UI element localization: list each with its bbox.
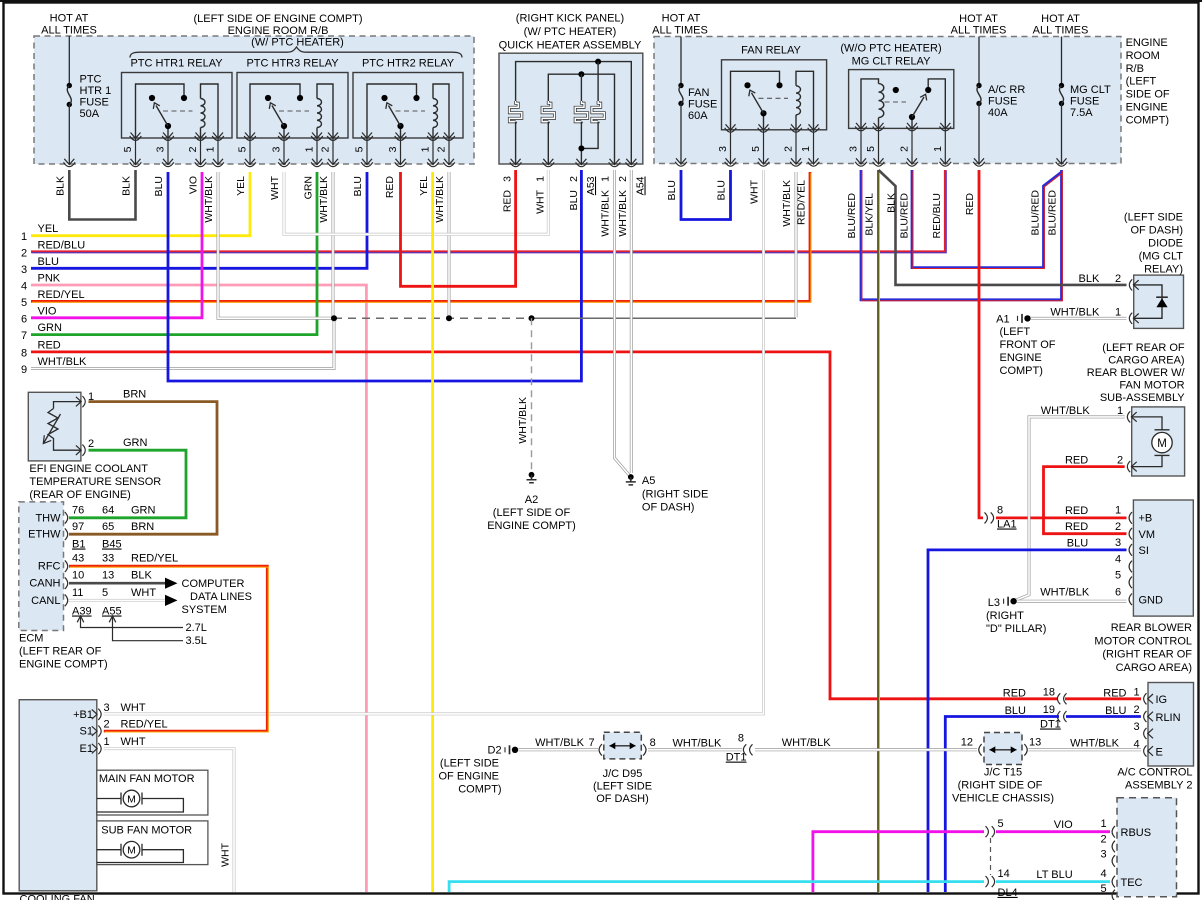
svg-text:(RIGHT: (RIGHT: [986, 610, 1024, 622]
svg-text:(LEFT: (LEFT: [1000, 326, 1031, 338]
svg-text:ALL TIMES: ALL TIMES: [652, 24, 708, 36]
svg-text:(LEFT SIDE: (LEFT SIDE: [440, 758, 499, 770]
wire 9 WHT/BLK net branch: [31, 318, 334, 368]
svg-text:65: 65: [102, 521, 114, 533]
svg-text:ENGINE COMPT): ENGINE COMPT): [487, 520, 576, 532]
svg-text:RED: RED: [1103, 688, 1126, 700]
svg-text:SUB-ASSEMBLY: SUB-ASSEMBLY: [1100, 392, 1185, 404]
relay U4 pin stubs and numbers: [730, 130, 732, 164]
svg-text:(W/ PTC HEATER): (W/ PTC HEATER): [251, 37, 344, 49]
svg-text:19: 19: [1043, 704, 1055, 716]
svg-text:BRN: BRN: [131, 521, 154, 533]
svg-text:2: 2: [320, 146, 332, 152]
svg-text:1: 1: [1100, 818, 1106, 830]
svg-text:PTC HTR2 RELAY: PTC HTR2 RELAY: [362, 58, 455, 70]
wire A53 WHT/BLK to ground A5: [615, 170, 630, 476]
wire WHT/BLK fan relay pin 2 drop: [795, 172, 798, 318]
svg-text:(LEFT SIDE: (LEFT SIDE: [593, 780, 652, 792]
svg-text:EFI ENGINE COOLANT: EFI ENGINE COOLANT: [29, 463, 148, 475]
svg-text:A53: A53: [585, 176, 597, 195]
svg-text:5: 5: [102, 587, 108, 599]
svg-text:2.7L: 2.7L: [186, 622, 207, 634]
wire GRN sensor pin 2 to ECM THW: [69, 450, 186, 518]
svg-text:ECM: ECM: [19, 633, 43, 645]
wire BLU RLIN to DT1 and off page: [1066, 715, 1141, 718]
relay U2 pin stubs and numbers: [249, 138, 251, 164]
svg-text:ENGINE: ENGINE: [1126, 37, 1168, 49]
svg-text:CANL: CANL: [31, 595, 60, 607]
svg-text:BLU/RED: BLU/RED: [899, 193, 911, 239]
svg-text:8: 8: [997, 505, 1003, 517]
svg-text:3: 3: [1115, 537, 1121, 549]
svg-text:76: 76: [72, 505, 84, 517]
junction node on bus 2: [578, 71, 584, 77]
svg-text:WHT/BLK: WHT/BLK: [38, 356, 88, 368]
relay U5 pin stubs and numbers: [860, 128, 862, 163]
splice D2: [504, 747, 506, 752]
svg-text:FUSE: FUSE: [1070, 96, 1099, 108]
heater internal bus 2: [548, 74, 614, 164]
wire YEL relay U3 pin 1 drop off page: [431, 172, 434, 892]
svg-text:WHT/BLK: WHT/BLK: [1041, 405, 1091, 417]
wire WHT/BLK solid run to fan relay pin 2: [532, 317, 797, 319]
svg-text:2: 2: [1133, 704, 1139, 716]
svg-text:A/C RR: A/C RR: [988, 84, 1025, 96]
svg-text:ENGINE ROOM R/B: ENGINE ROOM R/B: [228, 25, 329, 37]
svg-text:6: 6: [1115, 586, 1121, 598]
svg-text:ENGINE COMPT): ENGINE COMPT): [19, 659, 108, 671]
svg-text:5: 5: [237, 146, 249, 152]
diode internal circuit: [1134, 285, 1162, 318]
svg-text:+B1: +B1: [73, 709, 93, 721]
svg-text:33: 33: [102, 553, 114, 565]
svg-text:RED/YEL: RED/YEL: [131, 553, 178, 565]
wire WHT/BLK splice A1 to diode pin 1: [1031, 317, 1127, 320]
svg-text:(RIGHT REAR OF: (RIGHT REAR OF: [1102, 649, 1192, 661]
svg-text:1: 1: [535, 176, 547, 182]
svg-text:1: 1: [205, 146, 217, 152]
wire WHT/BLK relay U2 pin 2 drop: [332, 172, 335, 318]
svg-text:4: 4: [1115, 554, 1121, 566]
svg-text:2: 2: [104, 719, 110, 731]
heater internal bus 1: [516, 62, 632, 164]
diode D1 box (MG CLT relay): [1134, 275, 1184, 328]
fan motor M3 internal: [1132, 417, 1162, 430]
svg-text:M: M: [127, 845, 136, 857]
svg-text:PTC: PTC: [80, 74, 102, 86]
svg-text:43: 43: [72, 553, 84, 565]
svg-text:REAR BLOWER: REAR BLOWER: [1111, 622, 1192, 634]
svg-text:WHT/BLK: WHT/BLK: [673, 738, 723, 750]
svg-text:DT1: DT1: [1040, 719, 1061, 731]
svg-text:WHT/BLK: WHT/BLK: [318, 176, 330, 223]
svg-text:BLK: BLK: [131, 570, 152, 582]
svg-text:OF DASH): OF DASH): [596, 793, 649, 805]
svg-text:2: 2: [187, 146, 199, 152]
svg-text:BLU/RED: BLU/RED: [1047, 190, 1059, 236]
svg-text:LT BLU: LT BLU: [1036, 869, 1072, 881]
svg-text:1: 1: [420, 146, 432, 152]
svg-text:WHT: WHT: [121, 736, 146, 748]
svg-text:BLU: BLU: [716, 180, 728, 200]
svg-text:BLU/RED: BLU/RED: [846, 193, 858, 239]
connector DT1 pin 8 on WHT/BLK wire: [743, 744, 752, 755]
diode symbol: [1156, 298, 1167, 307]
svg-text:RELAY): RELAY): [1144, 264, 1183, 276]
svg-text:YEL: YEL: [235, 176, 247, 196]
rear blower pin 6 GND: [1129, 594, 1132, 606]
svg-text:2: 2: [1115, 273, 1121, 285]
svg-text:(LEFT REAR OF: (LEFT REAR OF: [19, 646, 102, 658]
svg-text:2: 2: [1100, 834, 1106, 846]
svg-text:HOT AT: HOT AT: [959, 13, 998, 25]
svg-text:5: 5: [122, 146, 134, 152]
wire RED A/C RR fuse to rear blower +B: [979, 170, 983, 518]
fan motor pin 1 connector: [1127, 411, 1136, 422]
svg-text:5: 5: [865, 146, 877, 152]
wire WHT relay U2 pin 3 to quick heater pin 1: [284, 170, 548, 234]
wire WHT/BLK relay U1 pin 1 junction segment: [218, 172, 334, 318]
cooling fan pin S1: [92, 726, 101, 737]
wire VIO off page to RBUS: [813, 832, 984, 892]
svg-text:BLK: BLK: [886, 193, 898, 213]
svg-text:WHT/BLK: WHT/BLK: [600, 190, 612, 237]
svg-text:14: 14: [998, 868, 1010, 880]
svg-text:RED: RED: [1065, 505, 1088, 517]
svg-text:DL4: DL4: [998, 887, 1018, 899]
wire BLU/RED MG relay pin 3 to MG CLT fuse: [861, 170, 1062, 300]
relay U1 pin stubs and numbers: [135, 138, 137, 164]
connector DT1 pin 18 on RED wire: [1057, 693, 1066, 704]
svg-text:BLU: BLU: [1067, 537, 1088, 549]
svg-text:2: 2: [568, 176, 580, 182]
svg-text:HOT AT: HOT AT: [662, 13, 701, 25]
heater element E1: [509, 101, 521, 122]
svg-text:MAIN FAN MOTOR: MAIN FAN MOTOR: [99, 773, 195, 785]
svg-text:VEHICLE CHASSIS): VEHICLE CHASSIS): [952, 793, 1054, 805]
svg-text:1: 1: [1115, 307, 1121, 319]
svg-text:1: 1: [932, 146, 944, 152]
svg-text:GND: GND: [1139, 595, 1164, 607]
svg-text:BLU: BLU: [1105, 705, 1126, 717]
svg-text:64: 64: [102, 505, 114, 517]
svg-text:"D" PILLAR): "D" PILLAR): [986, 623, 1046, 635]
wire 8 RED net to IG: [31, 352, 1058, 699]
svg-text:ALL TIMES: ALL TIMES: [41, 24, 97, 36]
svg-text:(LEFT SIDE OF: (LEFT SIDE OF: [493, 507, 571, 519]
wire WHT/BLK dashed junction run: [334, 317, 532, 319]
wire 4 PNK net: [31, 285, 366, 892]
sensor thermistor arrow: [44, 414, 61, 443]
svg-text:1: 1: [104, 736, 110, 748]
svg-text:M: M: [127, 793, 136, 805]
ECM box: [19, 502, 64, 631]
wire WHT fan relay pin 5 to cooling fan +B1: [104, 170, 764, 714]
svg-text:3: 3: [502, 176, 514, 182]
ECM pin CANH: [65, 577, 68, 589]
connector DT1 pin 19 on BLU wire: [1057, 711, 1066, 722]
connector DL4 dashed link: [990, 838, 992, 875]
svg-text:RLIN: RLIN: [1156, 712, 1181, 724]
A55 arrow 3.5L: [113, 617, 184, 641]
wire BLU rear blower SI drop off page: [928, 550, 1127, 892]
svg-text:CANH: CANH: [29, 578, 60, 590]
svg-text:VM: VM: [1139, 529, 1156, 541]
svg-text:3: 3: [21, 264, 27, 276]
svg-text:MG CLT: MG CLT: [1070, 84, 1111, 96]
ECM pin RFC: [65, 560, 68, 572]
svg-text:WHT/BLK: WHT/BLK: [781, 180, 793, 227]
svg-text:BLU/RED: BLU/RED: [1029, 190, 1041, 236]
rear blower pin 4: [1129, 561, 1132, 573]
wire 1 YEL net: [31, 172, 250, 236]
junction node J2: [446, 315, 452, 321]
heater element E3: [580, 74, 582, 101]
svg-text:ETHW: ETHW: [28, 529, 61, 541]
svg-text:ALL TIMES: ALL TIMES: [1033, 25, 1089, 37]
A/C pin 2 RLIN: [1144, 711, 1153, 722]
sensor pin 2 connector: [76, 445, 85, 456]
svg-text:7: 7: [21, 330, 27, 342]
svg-text:SIDE OF: SIDE OF: [1126, 89, 1170, 101]
svg-text:MOTOR CONTROL: MOTOR CONTROL: [1094, 635, 1192, 647]
wire from hot feed to PTC HTR 1 fuse: [68, 36, 70, 84]
svg-text:1: 1: [1117, 405, 1123, 417]
svg-text:HOT AT: HOT AT: [50, 13, 89, 25]
junction connector J/C D95: [599, 744, 602, 756]
svg-text:WHT/BLK: WHT/BLK: [517, 397, 529, 444]
svg-text:OF DASH): OF DASH): [1130, 225, 1183, 237]
wire RED/YEL ECM RFC to cooling fan S1: [69, 566, 267, 731]
svg-text:RED/BLU: RED/BLU: [38, 239, 86, 251]
svg-text:DATA LINES: DATA LINES: [190, 591, 252, 603]
svg-text:1: 1: [304, 146, 316, 152]
ECM pin THW: [65, 512, 68, 524]
svg-text:2: 2: [617, 176, 629, 182]
svg-text:2: 2: [1117, 455, 1123, 467]
svg-text:PTC HTR1 RELAY: PTC HTR1 RELAY: [130, 58, 223, 70]
svg-text:WHT: WHT: [220, 842, 232, 866]
svg-text:RED: RED: [964, 193, 976, 216]
svg-text:FUSE: FUSE: [988, 96, 1017, 108]
svg-text:IG: IG: [1156, 694, 1168, 706]
svg-text:1: 1: [600, 176, 612, 182]
svg-text:YEL: YEL: [38, 223, 59, 235]
svg-text:RED: RED: [38, 339, 61, 351]
svg-text:GRN: GRN: [123, 437, 148, 449]
svg-text:ENGINE: ENGINE: [1126, 102, 1168, 114]
svg-text:BLK: BLK: [54, 176, 66, 196]
diode pin 1 connector: [1129, 313, 1138, 324]
svg-text:FAN RELAY: FAN RELAY: [741, 45, 801, 57]
svg-text:J/C T15: J/C T15: [984, 767, 1022, 779]
wire A54 WHT/BLK to ground A5: [630, 170, 633, 473]
svg-text:CARGO AREA): CARGO AREA): [1108, 355, 1184, 367]
engine room R/B box 1 (left side of engine compt): [34, 36, 474, 164]
svg-text:5: 5: [998, 818, 1004, 830]
svg-text:BLK: BLK: [121, 176, 133, 196]
svg-text:J/C D95: J/C D95: [603, 768, 643, 780]
svg-text:RED: RED: [1065, 455, 1088, 467]
svg-text:RED: RED: [1003, 688, 1026, 700]
wire BLK/YEL MG relay pin 5 drop off page: [877, 170, 880, 892]
ground A2: [529, 472, 535, 478]
svg-text:BLU: BLU: [568, 190, 580, 210]
svg-text:YEL: YEL: [418, 176, 430, 196]
diode pin 2 connector: [1129, 279, 1138, 290]
svg-text:TEC: TEC: [1121, 877, 1143, 889]
svg-text:1: 1: [1115, 504, 1121, 516]
cooling fan pin +B1: [92, 709, 101, 720]
fan motor pin 2 connector: [1127, 461, 1136, 472]
rear blower pin 1 +B: [1129, 512, 1132, 524]
svg-text:9: 9: [21, 364, 27, 376]
junction node heater elements E3/E4: [578, 145, 584, 151]
svg-text:REAR BLOWER W/: REAR BLOWER W/: [1087, 367, 1186, 379]
sub fan motor M2: [97, 849, 121, 851]
wire WHT ECM CANL to data lines: [69, 599, 165, 602]
svg-text:WHT: WHT: [269, 175, 281, 199]
svg-text:A2: A2: [525, 494, 538, 506]
svg-text:RED/YEL: RED/YEL: [121, 719, 168, 731]
svg-text:5: 5: [1115, 570, 1121, 582]
main fan motor M1: [97, 798, 121, 800]
svg-text:S1: S1: [80, 726, 93, 738]
svg-text:TEMPERATURE SENSOR: TEMPERATURE SENSOR: [29, 476, 161, 488]
svg-text:6: 6: [21, 313, 27, 325]
wire RED relay U3 pin 3 to quick heater pin 3: [401, 170, 516, 286]
A/C lower pin 4 TEC: [1112, 876, 1115, 888]
wire RED fan motor pin 2 to rear blower VM: [1044, 467, 1127, 534]
A/C lower pin 3: [1112, 855, 1115, 867]
svg-text:GRN: GRN: [131, 505, 156, 517]
svg-text:D2: D2: [488, 745, 502, 757]
wire WHT/BLK DT1 to J/C T15: [755, 748, 977, 751]
ECM pin CANL: [65, 595, 68, 607]
svg-text:COOLING FAN: COOLING FAN: [20, 894, 95, 900]
svg-text:1: 1: [1133, 687, 1139, 699]
svg-text:A/C CONTROL: A/C CONTROL: [1117, 767, 1192, 779]
svg-text:RBUS: RBUS: [1121, 827, 1152, 839]
svg-text:ASSEMBLY 2: ASSEMBLY 2: [1125, 780, 1192, 792]
svg-text:BRN: BRN: [123, 389, 146, 401]
svg-text:HOT AT: HOT AT: [1041, 13, 1080, 25]
svg-text:RED: RED: [1065, 521, 1088, 533]
svg-text:5: 5: [354, 146, 366, 152]
svg-text:3: 3: [387, 146, 399, 152]
splice A1: [1017, 316, 1019, 321]
svg-text:8: 8: [738, 733, 744, 745]
svg-text:QUICK HEATER ASSEMBLY: QUICK HEATER ASSEMBLY: [499, 40, 642, 52]
svg-text:FUSE: FUSE: [80, 97, 109, 109]
svg-text:PTC HTR3 RELAY: PTC HTR3 RELAY: [246, 58, 339, 70]
svg-text:VIO: VIO: [1054, 819, 1073, 831]
svg-text:COMPT): COMPT): [1126, 114, 1169, 126]
connector LA1 pin 8 on RED wire: [985, 512, 994, 523]
wire BLK ECM CANH to data lines: [69, 582, 165, 585]
wire BLU relay U1 pin 3 to quick heater pin 2: [168, 170, 581, 381]
wire BLK MG relay pin 5 branch to diode pin 2: [879, 170, 1127, 285]
svg-text:COMPT): COMPT): [1000, 365, 1043, 377]
heater element E2: [542, 101, 554, 122]
sub fan motor box: [97, 821, 208, 865]
svg-text:RED: RED: [384, 176, 396, 199]
wire hot feed to MG CLT fuse: [1061, 37, 1063, 85]
engine room R/B box 2: [654, 37, 1121, 164]
svg-text:RED: RED: [502, 190, 514, 213]
wire WHT cooling fan E1 drop off page: [104, 749, 234, 892]
wire BLU fan fuse to fan relay pin 3: [681, 170, 731, 220]
svg-text:7.5A: 7.5A: [1070, 107, 1093, 119]
sensor internal thermistor: [54, 402, 81, 409]
svg-text:3: 3: [1133, 721, 1139, 733]
quick heater assembly box: [499, 53, 643, 164]
svg-text:(W/O PTC HEATER): (W/O PTC HEATER): [840, 43, 941, 55]
main fan motor box: [97, 770, 208, 815]
svg-text:3.5L: 3.5L: [186, 635, 207, 647]
junction node J3 to ground A2: [529, 315, 535, 321]
svg-text:2: 2: [783, 146, 795, 152]
svg-text:WHT/BLK: WHT/BLK: [203, 176, 215, 223]
wire hot feed to A/C RR fuse: [978, 37, 980, 85]
svg-text:5: 5: [750, 146, 762, 152]
svg-text:B45: B45: [102, 539, 122, 551]
svg-text:FUSE: FUSE: [688, 99, 717, 111]
svg-text:WHT/BLK: WHT/BLK: [782, 737, 832, 749]
svg-text:4: 4: [21, 281, 27, 293]
svg-text:2: 2: [1115, 521, 1121, 533]
svg-text:4: 4: [1100, 868, 1106, 880]
wire BRN sensor pin 1 to ECM ETHW: [69, 402, 217, 535]
wire WHT/BLK dashed drop to ground A2: [531, 318, 533, 471]
svg-text:BLK: BLK: [1079, 273, 1100, 285]
svg-text:RED/YEL: RED/YEL: [38, 289, 85, 301]
heater element E4: [597, 62, 599, 101]
svg-text:(LEFT SIDE OF ENGINE COMPT): (LEFT SIDE OF ENGINE COMPT): [193, 13, 362, 25]
svg-text:BLU: BLU: [666, 180, 678, 200]
wire 7 GRN net: [31, 172, 317, 335]
svg-text:FRONT OF: FRONT OF: [1000, 339, 1056, 351]
wire hot feed to fan fuse: [680, 37, 682, 85]
svg-text:A55: A55: [102, 606, 122, 618]
svg-text:OF ENGINE: OF ENGINE: [438, 771, 499, 783]
wire 5 RED/YEL net: [31, 172, 810, 301]
svg-text:(MG CLT: (MG CLT: [1139, 251, 1184, 263]
svg-text:ROOM: ROOM: [1126, 50, 1160, 62]
A/C lower pin 5: [1112, 890, 1115, 900]
svg-text:1: 1: [21, 231, 27, 243]
A/C lower pin 1 RBUS: [1112, 826, 1115, 838]
A39 arrow 2.7L: [81, 617, 184, 628]
svg-text:60A: 60A: [688, 110, 708, 122]
svg-text:3: 3: [1100, 849, 1106, 861]
ground A5: [628, 474, 634, 480]
svg-text:WHT: WHT: [535, 189, 547, 213]
svg-text:(RIGHT SIDE: (RIGHT SIDE: [642, 489, 708, 501]
wire WHT/BLK fan motor pin 1 to splice L3: [1014, 417, 1125, 601]
cooling fan pin E1: [92, 743, 101, 754]
svg-text:A1: A1: [996, 314, 1009, 326]
wire BLU/RED MG relay pin 2 to fuse tap: [912, 170, 1061, 268]
svg-text:A54: A54: [635, 176, 647, 195]
wire BLK fuse to relay U1 pin 5: [69, 170, 135, 220]
rear blower fan motor sub-assembly box: [1132, 407, 1185, 476]
wire WHT/BLK splice L3 to rear blower GND: [1017, 600, 1127, 603]
fuse FAN FUSE 60A: [678, 83, 683, 88]
svg-text:HTR 1: HTR 1: [80, 85, 112, 97]
svg-text:10: 10: [72, 570, 84, 582]
svg-text:(RIGHT SIDE OF: (RIGHT SIDE OF: [958, 780, 1043, 792]
